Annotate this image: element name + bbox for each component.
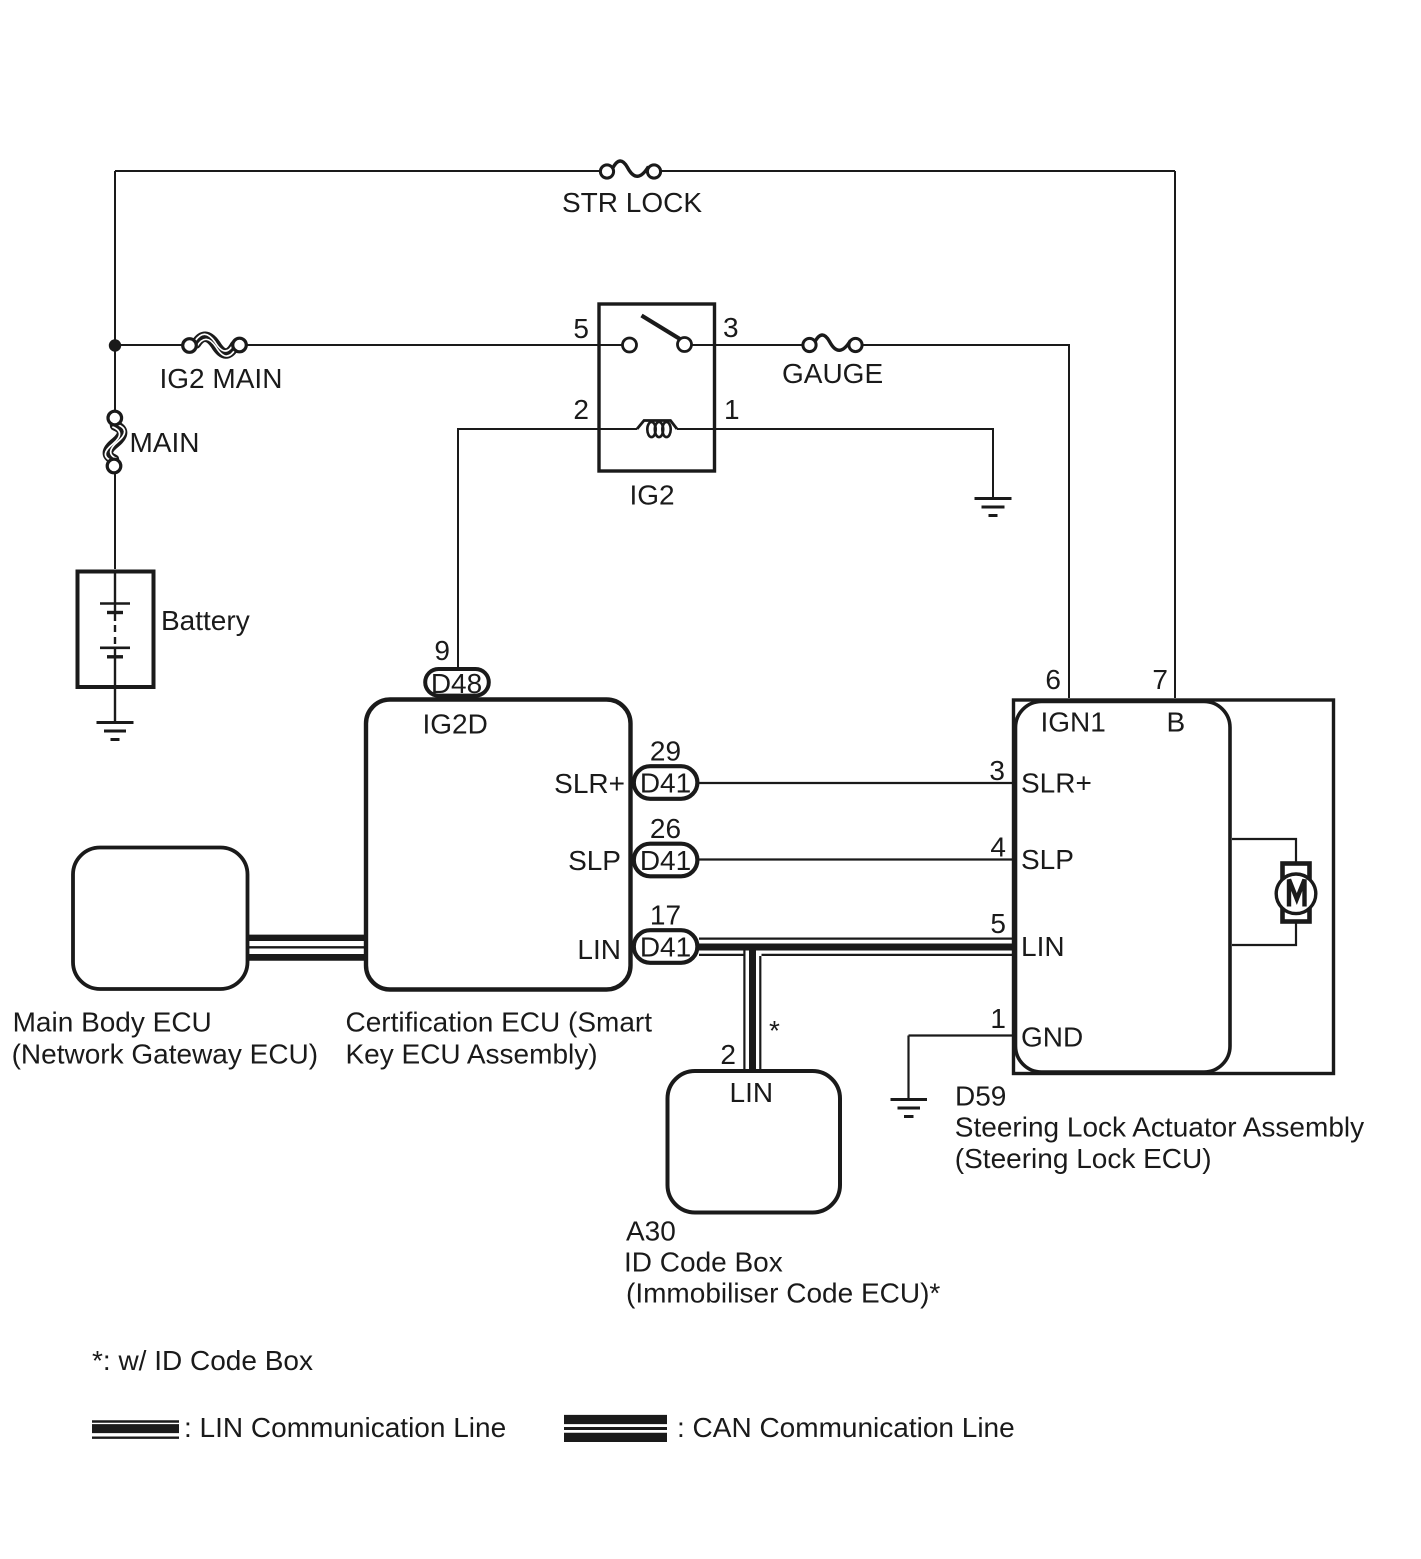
svg-text:LIN: LIN [577,934,621,965]
svg-text:Steering Lock Actuator Assembl: Steering Lock Actuator Assembly [955,1112,1364,1143]
svg-text:3: 3 [989,755,1005,786]
svg-text:5: 5 [990,908,1006,939]
svg-text:7: 7 [1152,664,1168,695]
svg-text:*: w/ ID Code Box: *: w/ ID Code Box [92,1345,313,1376]
svg-text:MAIN: MAIN [130,427,200,458]
svg-text:4: 4 [990,832,1006,863]
svg-text:Certification ECU (Smart: Certification ECU (Smart [346,1007,653,1038]
svg-text:2: 2 [573,394,589,425]
svg-text:D48: D48 [431,668,482,699]
svg-text:2: 2 [720,1039,736,1070]
svg-text:GAUGE: GAUGE [782,358,883,389]
svg-text:29: 29 [650,736,681,767]
svg-text:26: 26 [650,813,681,844]
svg-text:SLR+: SLR+ [1021,768,1092,799]
svg-text:LIN: LIN [1021,931,1065,962]
svg-text:D41: D41 [640,845,691,876]
svg-text:(Network Gateway ECU): (Network Gateway ECU) [12,1039,319,1070]
svg-text:GND: GND [1021,1022,1083,1053]
svg-text:SLP: SLP [1021,844,1074,875]
svg-text:B: B [1167,707,1186,738]
svg-text:D41: D41 [640,768,691,799]
svg-text:Battery: Battery [161,605,250,636]
svg-text:5: 5 [573,313,589,344]
svg-text:6: 6 [1045,664,1061,695]
svg-text:Key ECU Assembly): Key ECU Assembly) [346,1039,598,1070]
svg-text:: CAN Communication Line: : CAN Communication Line [677,1412,1015,1443]
svg-text:A30: A30 [626,1216,676,1247]
svg-text:IG2D: IG2D [423,709,488,740]
svg-text:3: 3 [723,312,739,343]
svg-text:Main Body ECU: Main Body ECU [13,1007,212,1038]
svg-text:IGN1: IGN1 [1041,707,1106,738]
svg-text:IG2: IG2 [630,480,675,511]
svg-text:9: 9 [434,635,450,666]
svg-text:SLR+: SLR+ [554,768,625,799]
svg-text:17: 17 [650,900,681,931]
svg-text:D59: D59 [955,1081,1006,1112]
svg-text:1: 1 [724,394,740,425]
svg-text:SLP: SLP [568,845,621,876]
svg-text:IG2 MAIN: IG2 MAIN [160,363,283,394]
svg-text:(Steering Lock ECU): (Steering Lock ECU) [955,1143,1212,1174]
svg-text:D41: D41 [640,932,691,963]
svg-text:ID Code Box: ID Code Box [624,1247,783,1278]
svg-text:(Immobiliser Code ECU)*: (Immobiliser Code ECU)* [626,1278,940,1309]
svg-text:: LIN Communication Line: : LIN Communication Line [184,1412,506,1443]
svg-text:LIN: LIN [730,1077,774,1108]
svg-text:1: 1 [990,1003,1006,1034]
svg-text:*: * [769,1015,780,1046]
svg-text:STR LOCK: STR LOCK [562,187,702,218]
